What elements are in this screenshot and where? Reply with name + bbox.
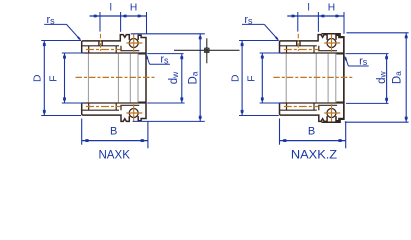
D dimension line (241, 41, 243, 116)
B extension right (147, 121, 149, 148)
svg-text:D: D (231, 75, 242, 82)
F extension top (260, 52, 282, 54)
washer inner edge top (139, 53, 147, 55)
svg-text:D: D (33, 75, 44, 82)
Da extension top (left drawing) (131, 33, 205, 35)
svg-text:F: F (49, 75, 60, 81)
B dimension line (82, 140, 148, 142)
Da dimension line (left drawing) (199, 34, 201, 122)
bore line bottom (82, 102, 146, 104)
arrow D bottom (241, 110, 244, 114)
svg-text:B: B (308, 126, 315, 138)
B extension left (279, 119, 281, 145)
needle roller rectangle top (286, 46, 288, 53)
dw extension top (right drawing) (346, 53, 389, 55)
svg-text:dw: dw (168, 71, 180, 84)
D extension top (239, 40, 279, 42)
outer ring bottom profile (82, 103, 130, 121)
needle centerline bottom (86, 106, 121, 108)
cage edge lines in bore (285, 54, 287, 103)
Da extension bottom (left drawing) (133, 120, 205, 122)
outer ring top profile (82, 35, 130, 53)
needle roller rectangle bottom (88, 103, 90, 110)
outer ring bottom profile (280, 103, 328, 121)
raceway shoulder line bottom (280, 109, 317, 111)
arrow H inside-right (138, 15, 142, 18)
bore line top (280, 52, 344, 54)
outer ring top profile (right drawing) (280, 35, 328, 53)
arrow D top (43, 42, 46, 46)
D extension bottom (41, 115, 81, 117)
arrow D top (241, 42, 244, 46)
needle roller rectangle bottom (286, 103, 288, 110)
arrow l outside-left (292, 15, 296, 18)
B extension right (345, 121, 347, 148)
arrow B right (141, 139, 146, 142)
dw dimension line (left drawing) (181, 54, 183, 103)
arrow F bottom (63, 97, 66, 101)
ball bottom (327, 109, 336, 118)
washer inner edge top (336, 53, 344, 55)
thrust shaft washer bottom (319, 105, 337, 110)
ball top crosshair (324, 42, 340, 44)
oil hole (98, 41, 100, 46)
oil hole (296, 41, 298, 46)
arrow l outside-right (122, 15, 126, 18)
dw dimension line (right drawing) (386, 54, 388, 104)
oil hole centerline (297, 34, 299, 51)
thrust shaft washer bottom (121, 105, 139, 110)
Da extension bottom (right drawing) (345, 121, 409, 123)
arrow l outside-right (320, 15, 324, 18)
svg-text:rs: rs (160, 54, 169, 66)
extension tick H right (343, 12, 345, 34)
thrust washer right piece (336, 35, 344, 120)
svg-text:l: l (307, 3, 309, 14)
bore line top (82, 52, 146, 54)
D dimension line (43, 41, 45, 116)
extension tick l-H middle (120, 12, 122, 32)
raceway shoulder line top (82, 45, 119, 47)
arrow F top (63, 54, 66, 58)
raceway shoulder line bottom (82, 109, 119, 111)
ball bottom (129, 109, 138, 118)
svg-text:NAXK.Z: NAXK.Z (291, 148, 337, 162)
ball bottom crosshair (126, 112, 142, 114)
dw extension bottom (right drawing) (346, 102, 389, 104)
B dimension line (280, 140, 346, 142)
axis target symbol (174, 49, 240, 51)
arrow H inside-right (335, 15, 339, 18)
main centerline (76, 76, 156, 78)
F extension bottom (260, 102, 283, 104)
arrow F top (261, 54, 264, 58)
arrow F bottom (261, 97, 264, 101)
dw extension top (left drawing) (147, 53, 183, 55)
extension tick l left (oil hole) (99, 12, 101, 32)
arrow B left (282, 139, 287, 142)
dimension line l-H (287, 15, 344, 17)
ball bottom crosshair (324, 112, 340, 114)
arrow B right (339, 139, 344, 142)
Da extension top (right drawing) (346, 32, 408, 34)
D extension bottom (239, 115, 279, 117)
F extension bottom (62, 102, 85, 104)
D extension top (41, 40, 81, 42)
B extension left (81, 119, 83, 145)
arrow D bottom (43, 110, 46, 114)
needle roller rectangle top (88, 46, 90, 53)
ball top crosshair (126, 42, 142, 44)
main centerline (273, 76, 353, 78)
thrust shaft washer top (121, 46, 139, 51)
extension tick H right (146, 12, 148, 34)
Da dimension line (right drawing) (405, 33, 407, 122)
svg-text:NAXK: NAXK (98, 148, 130, 162)
svg-text:l: l (110, 3, 112, 14)
svg-text:H: H (328, 3, 335, 14)
needle centerline bottom (284, 106, 319, 108)
F dimension line (64, 53, 66, 103)
svg-text:B: B (110, 126, 117, 138)
ball top (327, 39, 336, 48)
F extension top (62, 52, 84, 54)
arrow l outside-left (94, 15, 98, 18)
svg-text:F: F (246, 75, 257, 81)
washer inner edge bottom (139, 101, 147, 103)
F dimension line (261, 53, 263, 103)
svg-text:Da: Da (391, 71, 403, 84)
svg-text:Da: Da (188, 71, 200, 84)
Z cover (322, 34, 344, 123)
extension tick l-H middle (317, 12, 319, 32)
svg-text:H: H (130, 3, 137, 14)
ball top (129, 39, 138, 48)
needle centerline top (86, 49, 121, 51)
bore line bottom (280, 102, 344, 104)
raceway shoulder line top (280, 45, 317, 47)
needle centerline top (284, 49, 319, 51)
dw extension bottom (left drawing) (147, 102, 184, 104)
cage edge lines in bore (87, 54, 89, 103)
svg-text:dw: dw (376, 70, 388, 83)
extension tick l left (oil hole) (297, 12, 299, 32)
arrow B left (84, 139, 89, 142)
oil hole centerline (100, 34, 102, 51)
thrust washer right piece (138, 35, 146, 120)
thrust shaft washer top (319, 46, 337, 51)
dimension line l-H (90, 15, 147, 17)
washer inner edge bottom (336, 101, 344, 103)
